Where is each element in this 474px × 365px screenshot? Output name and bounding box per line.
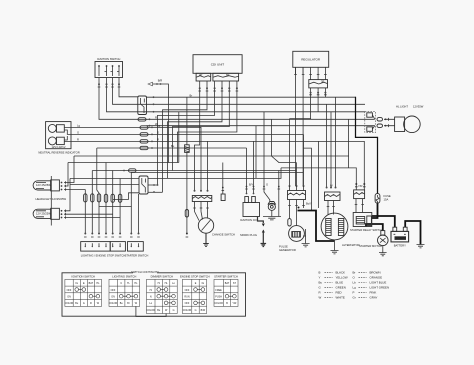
inline capsule band 148 [140, 146, 153, 149]
inline capsule indicator wire 1 [140, 126, 153, 129]
wire dimmer right pin stub 1 [148, 184, 158, 186]
wire CDI pin1 to change switch [195, 81, 200, 190]
wire neutral indicator top [71, 127, 201, 190]
resistor R1 [185, 145, 190, 153]
svg-text:LIGHTING / ENGINE STOP SWITCH: LIGHTING / ENGINE STOP SWITCH [81, 254, 126, 258]
wire coil riser 2 [253, 141, 255, 193]
svg-text:12V 25/25W: 12V 25/25W [36, 212, 51, 216]
svg-text:Br: Br [353, 270, 356, 274]
wire bulb1 pin1 riser [64, 156, 74, 183]
svg-text:B/R: B/R [158, 79, 163, 83]
wire lighting switch right pin1 drop to resistor [186, 97, 188, 145]
svg-text:P: P [353, 291, 355, 295]
wire neutral indicator mid [71, 133, 304, 135]
svg-text:LIGHT BLUE: LIGHT BLUE [370, 281, 387, 285]
svg-text:12V 25/25W: 12V 25/25W [36, 183, 51, 187]
TABLES [62, 270, 246, 317]
dimmer connector assembly at headlight [365, 112, 376, 133]
wire band starter run [131, 173, 303, 207]
svg-text:Lg: Lg [77, 124, 80, 128]
svg-text:BATTERY: BATTERY [394, 244, 406, 248]
alternator G1 [321, 213, 360, 254]
wire ignition switch pin4 to lighting switch [119, 78, 138, 97]
svg-text:R: R [77, 138, 79, 142]
frame ground right [417, 245, 425, 248]
svg-text:RED: RED [336, 291, 342, 295]
svg-text:OFF: OFF [67, 289, 72, 292]
svg-text:C: C [120, 282, 122, 285]
svg-text:ORANGE: ORANGE [370, 275, 383, 279]
wire ignition pin3 long run [113, 78, 366, 105]
inline capsule on resistor drop [185, 210, 188, 238]
wire band 162 [68, 162, 179, 164]
wire alternator feed 1 [326, 104, 328, 187]
svg-text:LIGHT GREEN: LIGHT GREEN [370, 286, 390, 290]
svg-text:IGNITION SWITCH: IGNITION SWITCH [72, 275, 95, 279]
2pin connector right of change block [221, 187, 225, 201]
svg-text:BAT: BAT [89, 282, 94, 285]
regulator U2 [293, 51, 329, 95]
colour code legend column 2 [353, 270, 390, 299]
wire regulator pin2 long drop [302, 67, 304, 186]
wire pulse block pin3 riser [303, 134, 305, 186]
svg-text:COLOR: COLOR [109, 302, 118, 305]
svg-text:Lb: Lb [353, 281, 357, 285]
svg-text:Bu: Bu [171, 144, 175, 148]
wire alternator feed 3 [335, 97, 337, 187]
wire regulator block pin c [324, 88, 326, 97]
wire bus drop right staircase [290, 97, 311, 118]
svg-text:G: G [173, 309, 175, 312]
svg-text:REGULATOR: REGULATOR [301, 57, 321, 61]
wire colour letters [155, 93, 363, 205]
wire riser 348 [348, 119, 350, 168]
svg-text:BAT: BAT [225, 282, 230, 285]
wire riser 256 [255, 126, 257, 179]
heavy wire battery to frame ground [405, 221, 420, 245]
svg-text:R: R [157, 138, 159, 142]
wire dimmer right pin1 long [148, 168, 281, 179]
svg-text:OFF: OFF [185, 289, 190, 292]
svg-text:GRAY: GRAY [370, 296, 378, 300]
svg-text:Lg: Lg [157, 124, 160, 128]
wire pulse block pin2 riser [296, 163, 298, 186]
svg-text:STARTER MOTOR: STARTER MOTOR [359, 244, 382, 248]
vertical capsule connectors above strip group 2 [104, 194, 122, 202]
wire dimmer right pin stub 2 [148, 191, 163, 193]
svg-text:NEUTRAL REVERSE INDICATOR: NEUTRAL REVERSE INDICATOR [38, 151, 79, 155]
capsule on pulse generator wire [288, 219, 291, 226]
wire headlight lo run [147, 125, 375, 127]
svg-text:COLOR: COLOR [214, 302, 223, 305]
svg-text:12V3.4W×2: 12V3.4W×2 [51, 145, 66, 149]
ground below change switch [203, 233, 209, 246]
svg-text:COLOR: COLOR [65, 302, 74, 305]
inline capsule indicator wire 2 [140, 133, 153, 136]
svg-text:FREE: FREE [215, 289, 222, 292]
wire dimmer box corner drop [138, 194, 140, 234]
svg-text:OFF: OFF [111, 289, 116, 292]
svg-text:ON: ON [67, 296, 71, 299]
change switch SW2 [195, 212, 235, 237]
inline capsule connector on headlight hi wire [138, 118, 150, 121]
terminal bullets on feed wires [245, 186, 280, 189]
svg-text:STARTER SWITCH: STARTER SWITCH [125, 254, 149, 258]
wire starter riser 131 [99, 207, 131, 234]
wire dimmer left pin2 [70, 184, 139, 186]
heavy wire fuse to relay [372, 203, 378, 219]
svg-text:Y/R: Y/R [358, 184, 363, 188]
svg-text:R: R [90, 302, 92, 305]
svg-text:12V25/25W: 12V25/25W [52, 197, 67, 201]
svg-text:15A: 15A [384, 198, 389, 202]
svg-text:ALTERNATOR: ALTERNATOR [342, 243, 360, 247]
svg-text:GREEN: GREEN [336, 286, 346, 290]
svg-text:COLOR: COLOR [183, 309, 192, 312]
svg-text:B: B [319, 270, 321, 274]
wire strip riser 85 capsule1 [84, 190, 86, 234]
battery BT1 [391, 227, 409, 247]
svg-text:4P: 4P [199, 73, 202, 77]
svg-text:W: W [319, 296, 322, 300]
wire band 170 [92, 170, 296, 172]
svg-text:CDI UNIT: CDI UNIT [211, 63, 225, 67]
wire bulb1 pin3 to capsule1 [64, 189, 85, 191]
svg-text:Br: Br [190, 93, 193, 97]
svg-text:12V8AH: 12V8AH [396, 237, 405, 240]
svg-text:COLOR: COLOR [146, 309, 155, 312]
wire strip riser 106 [105, 163, 107, 234]
inline capsule indicator wire 3 [140, 140, 153, 143]
svg-text:BROWN: BROWN [370, 270, 381, 274]
CDI unit U1 [193, 55, 242, 91]
table lighting switch [109, 275, 140, 307]
svg-text:GENERATOR: GENERATOR [279, 248, 296, 252]
dimmer switch relay box [139, 176, 158, 194]
svg-text:Bu: Bu [319, 281, 323, 285]
svg-text:SWITCH CONTINUITY: SWITCH CONTINUITY [131, 270, 159, 274]
change switch connector block [192, 190, 212, 212]
alternator connector block [325, 187, 341, 215]
svg-text:DIMMER SWITCH: DIMMER SWITCH [151, 275, 173, 279]
svg-text:LIGHTING SWITCH: LIGHTING SWITCH [112, 275, 136, 279]
wire 2pin connector riser [222, 163, 224, 194]
svg-text:FUSE: FUSE [384, 194, 391, 198]
headlight bulb left upper [33, 180, 65, 191]
wire regulator block pin b [317, 88, 319, 112]
wire bulb2 pin1 riser to dimmer [64, 179, 70, 211]
svg-text:BLUE: BLUE [336, 281, 344, 285]
svg-text:12V35W: 12V35W [413, 104, 424, 108]
wire lighting switch right pin3 drop [178, 112, 180, 163]
wire bulb case line [50, 176, 52, 226]
svg-text:PINK: PINK [370, 291, 377, 295]
arrow to taillight [148, 79, 162, 86]
svg-text:HL LIGHT: HL LIGHT [396, 104, 408, 108]
wire CDI pin3 staircase [158, 81, 215, 185]
headlamp HL1 [395, 104, 424, 132]
headlight bulb left lower [33, 197, 66, 220]
wire main bus lighting switch to regulator and right feed [147, 96, 356, 98]
svg-text:B/W: B/W [201, 309, 206, 312]
svg-text:IGNITION COIL: IGNITION COIL [240, 218, 259, 222]
colour code legend column 1 [319, 270, 348, 299]
starter relay switch [350, 213, 383, 233]
wire pulse block pin1 riser [289, 119, 291, 186]
svg-text:IG: IG [75, 282, 78, 285]
starter motor M [359, 231, 388, 256]
wire band 156 [74, 155, 349, 157]
wire drop 318 to alternator ground run [318, 141, 320, 208]
wire band 168 [281, 168, 356, 190]
svg-text:G: G [157, 131, 159, 135]
ignition coil T1 [240, 193, 260, 222]
svg-text:RUN: RUN [184, 296, 189, 299]
heavy wire pulse area to alternator ground [298, 211, 335, 242]
svg-text:IGNITION SWITCH: IGNITION SWITCH [97, 57, 120, 61]
inline capsule connector on lo wire [149, 125, 151, 127]
switch continuity outer box [62, 273, 246, 316]
lighting switch relay box [138, 96, 155, 115]
wire ignition pin1 headlight hi [99, 78, 375, 120]
wire CDI pin2 staircase [163, 81, 208, 192]
svg-text:R: R [319, 291, 321, 295]
ignition switch SW1 [95, 57, 123, 87]
wire bulb2 pin3 [64, 217, 120, 219]
heavy wire relay to battery [372, 216, 395, 227]
heavy wire relay to starter motor [366, 224, 383, 231]
wire dimmer box bottom L [113, 193, 139, 200]
wire change switch drop from indicator [207, 141, 209, 190]
svg-text:WHITE: WHITE [336, 296, 345, 300]
svg-text:ST: ST [233, 282, 237, 285]
svg-text:PULSE: PULSE [279, 244, 288, 248]
pulse generator PG [279, 226, 310, 252]
table ignition switch [65, 275, 102, 307]
svg-text:Y/R: Y/R [232, 302, 236, 305]
svg-text:G: G [83, 302, 85, 305]
wire band 148 [97, 147, 247, 149]
inline capsule on wire y170 [123, 169, 136, 172]
svg-text:Y: Y [319, 275, 321, 279]
table dimmer switch [146, 275, 177, 314]
wire strip riser 92 capsule2 [91, 171, 93, 234]
svg-text:STARTER RELAY SWITCH: STARTER RELAY SWITCH [350, 228, 383, 232]
table starter switch [214, 275, 238, 307]
wire linking lighting and dimmer tables [136, 306, 166, 316]
wire neutral indicator bottom long run [71, 141, 364, 190]
svg-text:OFF: OFF [185, 302, 190, 305]
svg-text:PUSH: PUSH [215, 296, 222, 299]
wire bulb2 pin2 [64, 213, 113, 215]
svg-text:Lg: Lg [353, 286, 357, 290]
svg-text:6P: 6P [226, 73, 229, 77]
wire coil riser 1 [246, 148, 248, 193]
wire CDI pin6 staircase [178, 81, 237, 163]
svg-text:3P: 3P [321, 80, 324, 84]
svg-text:STARTER SWITCH: STARTER SWITCH [214, 275, 238, 279]
starter relay connector block [354, 183, 366, 213]
svg-text:Br: Br [127, 302, 130, 305]
wire resistor drop with capsule [186, 152, 188, 233]
wire strip riser 99 [97, 148, 99, 234]
wire dimmer left pin1 [70, 178, 139, 180]
wire diagonal jog to pulse riser [271, 156, 296, 163]
svg-text:G: G [77, 131, 79, 135]
svg-text:N: N [150, 296, 152, 299]
svg-text:G: G [195, 309, 197, 312]
wire regulator pin1 long drop [295, 67, 297, 186]
wire strip riser 112 [112, 171, 114, 234]
svg-text:R: R [155, 115, 157, 119]
wire bulb1 pin2 riser [64, 163, 68, 187]
svg-text:ON: ON [111, 296, 115, 299]
condenser C1 [263, 202, 281, 220]
wire condenser riser and diagonal [264, 112, 270, 202]
svg-text:YELLOW: YELLOW [336, 275, 348, 279]
handlebar switch strip A [81, 233, 149, 258]
svg-text:G: G [266, 183, 268, 187]
LEGEND [319, 270, 390, 299]
pulse generator connector block [288, 185, 306, 226]
svg-text:ENGINE STOP SWITCH: ENGINE STOP SWITCH [180, 275, 210, 279]
wire condenser side wire [278, 171, 280, 217]
neutral reverse indicator unit [38, 122, 80, 155]
headlamp capsule connectors [377, 118, 395, 128]
wire riser 271 [270, 119, 272, 156]
svg-text:BLACK: BLACK [336, 270, 346, 274]
spark plug P1 [240, 217, 266, 247]
svg-text:HEADLIGHT: HEADLIGHT [36, 197, 52, 201]
vertical capsule connectors above strip group 1 [84, 194, 101, 202]
svg-text:SPARK PLUG: SPARK PLUG [240, 233, 257, 237]
wire arrow feed drop [153, 84, 169, 163]
svg-text:Gr: Gr [353, 296, 356, 300]
fuse F1 [375, 194, 391, 204]
wire regulator block pin a [310, 88, 312, 97]
wire ignition pin2 long run [107, 78, 366, 112]
heavy wire main feed right [356, 97, 378, 194]
svg-text:IG: IG [202, 282, 205, 285]
svg-text:Bu/Y: Bu/Y [306, 202, 312, 206]
svg-text:CHANGE SWITCH: CHANGE SWITCH [212, 233, 235, 237]
table engine stop switch [180, 275, 210, 314]
wire CDI pin5 staircase [173, 81, 230, 171]
wire strip riser 120 [119, 179, 121, 234]
wire segment 148 right with drop 311 [304, 148, 312, 210]
wire CDI pin4 staircase [168, 81, 223, 178]
wire alternator feed 2 [330, 112, 332, 188]
